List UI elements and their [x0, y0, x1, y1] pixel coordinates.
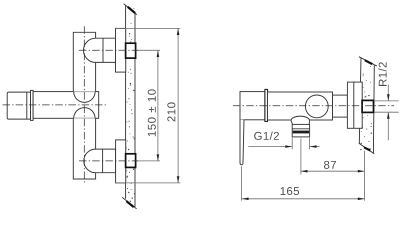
top connector dome — [84, 38, 116, 62]
cartridge circle — [305, 95, 328, 118]
dim 150+-10 label — [148, 89, 156, 136]
top flange — [116, 28, 126, 72]
handle collar side-view — [31, 90, 34, 120]
outlet nipple — [292, 124, 309, 136]
dim 87 line — [301, 170, 365, 172]
body front-view — [268, 92, 333, 120]
flange front-view — [347, 82, 362, 128]
wall left-view edges — [122, 4, 137, 209]
collar front-view — [265, 89, 268, 121]
outlet dome — [291, 116, 310, 124]
dim 210 label — [167, 102, 175, 121]
top wall pipe — [126, 43, 136, 58]
dim 150+-10 line — [157, 50, 159, 161]
G1/2 extension lines — [292, 138, 309, 150]
G1/2 label — [254, 132, 279, 140]
bottom connector dome — [84, 149, 116, 173]
dim 87 label — [324, 161, 336, 169]
lever front-view — [240, 120, 244, 165]
wall left-view break wedges — [128, 7, 135, 13]
centerline front-view — [233, 105, 394, 107]
dim R1/2 lines — [387, 85, 389, 101]
dim 165 extension lines — [242, 151, 365, 201]
wall pipe front-view — [362, 100, 373, 112]
handle cap side-view — [7, 92, 31, 119]
dim 210 extension lines — [115, 28, 180, 183]
wall front-view edges — [359, 57, 377, 154]
wall front-view break wedges — [365, 60, 373, 64]
bottom flange — [116, 140, 126, 183]
dim 165 line — [242, 198, 364, 200]
dim 150+-10 extension lines — [137, 50, 160, 161]
centerlines left view — [3, 26, 139, 184]
G1/2 dim lines — [248, 146, 292, 148]
wall front-view stipple — [360, 60, 372, 150]
neck front-view — [333, 95, 348, 117]
lever arm side-view — [33, 92, 99, 119]
dim R1/2 extension lines — [374, 101, 399, 112]
flange joint line — [353, 82, 355, 128]
wall left-view stipple — [126, 8, 135, 202]
body/arm intersection arcs — [74, 92, 95, 103]
dim 210 line — [177, 28, 179, 183]
dim 87 extension line — [300, 139, 302, 175]
dim 165 label — [281, 187, 299, 195]
body vertical side-view — [73, 32, 95, 179]
bottom wall pipe — [126, 154, 136, 168]
handle cap front-view — [240, 92, 265, 120]
dim R1/2 label — [378, 62, 386, 86]
